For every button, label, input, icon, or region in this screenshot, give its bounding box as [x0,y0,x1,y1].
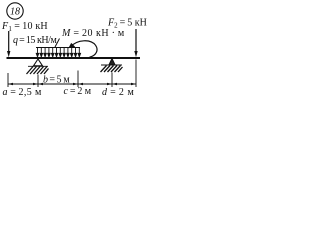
right support B [101,59,122,66]
svg-text:b = 5 м: b = 5 м [43,75,70,86]
svg-text:c = 2 м: c = 2 м [64,86,92,97]
dimension arrowheads [8,83,136,86]
force arrow F2 [134,29,137,57]
leader line from q label to load [55,39,60,48]
left support hatching [27,67,49,75]
dimension line [8,83,136,85]
svg-text:M = 20 кН · м: M = 20 кН · м [61,28,125,39]
svg-text:F1 = 10 кН: F1 = 10 кН [1,21,48,33]
svg-text:a = 2,5 м: a = 2,5 м [3,87,42,98]
right support hatching [101,66,123,73]
svg-text:q = 15 кН/м: q = 15 кН/м [13,35,58,46]
beam [7,57,141,59]
force arrow F1 [7,31,10,57]
moment arc M [68,41,97,57]
svg-text:d = 2 м: d = 2 м [102,87,134,98]
distributed load q top line [36,47,80,49]
left pin support A [28,59,48,66]
svg-text:F2 = 5 кН: F2 = 5 кН [107,18,147,30]
distributed load arrows [36,48,80,57]
svg-text:18: 18 [10,7,20,18]
circled figure number 18 [7,3,23,19]
dimension extension ticks [8,60,136,88]
